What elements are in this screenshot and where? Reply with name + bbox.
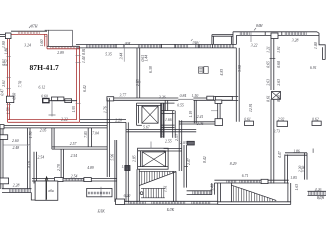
vent duct box: [43, 99, 49, 103]
window wall bottom-left: [2, 188, 32, 190]
corner inner line: [323, 47, 326, 59]
wall y122 right of corridor: [179, 122, 218, 124]
svg-text:6.20: 6.20: [124, 194, 131, 198]
svg-text:2.41: 2.41: [197, 115, 204, 119]
svg-text:4.18: 4.18: [28, 161, 32, 168]
pier x218 bottom: [215, 119, 223, 126]
dark vent box corridor: [125, 166, 130, 171]
ramp divider: [230, 183, 232, 202]
svg-text:5.96: 5.96: [111, 154, 115, 161]
wall joint tick: [270, 58, 276, 60]
svg-text:0.60: 0.60: [41, 95, 48, 99]
svg-text:1.66: 1.66: [165, 118, 172, 122]
wall elevator2 to corridor: [164, 149, 182, 152]
svg-text:1.21: 1.21: [266, 46, 270, 53]
svg-text:0.51: 0.51: [4, 59, 8, 66]
stair lower flight: [141, 187, 165, 189]
svg-text:6.12: 6.12: [39, 85, 46, 89]
bottom-left unit top wall: [1, 126, 108, 128]
svg-text:3.44: 3.44: [120, 53, 124, 60]
svg-text:БЛК: БЛК: [166, 208, 175, 212]
svg-text:7.70: 7.70: [19, 81, 23, 88]
pier x218 top: [215, 100, 222, 103]
svg-text:1.76: 1.76: [29, 131, 33, 138]
window hatch right section b: [240, 180, 259, 182]
svg-text:2.61: 2.61: [2, 80, 6, 87]
svg-text:2.55: 2.55: [165, 139, 172, 143]
tick x216 wall: [211, 110, 218, 112]
svg-text:3.26: 3.26: [159, 96, 166, 100]
pier right wing A: [277, 121, 288, 126]
window hatch 3a: [176, 45, 188, 48]
pier right section: [261, 179, 268, 183]
wall x195: [194, 100, 196, 123]
svg-text:0.65: 0.65: [266, 61, 270, 68]
svg-text:1.44: 1.44: [144, 55, 148, 62]
hall middle wall B x115: [115, 140, 117, 202]
bottom window a: [129, 202, 146, 205]
red unit top wall A outer: [11, 30, 47, 32]
svg-text:84Н: 84Н: [256, 24, 263, 28]
wall x185: [184, 145, 187, 188]
svg-text:4.47: 4.47: [278, 150, 282, 158]
svg-text:3.24: 3.24: [24, 43, 31, 47]
plumbing riser: [51, 101, 53, 117]
dim tick x124: [123, 46, 125, 61]
raised loggia box x212-233: [212, 34, 233, 36]
dim tick x251: [250, 32, 252, 42]
balcony box above red unit: [49, 30, 73, 46]
svg-text:2.05: 2.05: [40, 129, 47, 133]
pier 0.61: [245, 121, 254, 125]
ramp treads: [234, 186, 276, 201]
dim ticks on red walls: [7, 56, 11, 58]
svg-text:3.28: 3.28: [292, 38, 299, 42]
window hatch 4 loggia: [214, 45, 231, 48]
svg-text:6.71: 6.71: [242, 174, 249, 178]
svg-text:5.98: 5.98: [238, 65, 242, 72]
room divider x27: [28, 128, 30, 189]
window hatch top B: [51, 47, 75, 49]
axis label ЛВУ tick: [191, 39, 193, 41]
svg-text:1.55: 1.55: [161, 131, 165, 138]
axis label 87Н tick: [29, 26, 31, 28]
window hatch 3b: [196, 45, 211, 48]
step to vestibule: [31, 193, 35, 200]
upper wall window hatch: [285, 32, 306, 35]
kitchen icon top-right unit: [199, 67, 204, 73]
passage right wall: [212, 183, 215, 195]
svg-text:0.61: 0.61: [266, 95, 270, 102]
svg-text:ЛВУ: ЛВУ: [191, 41, 200, 45]
right wing top wall: [76, 43, 236, 45]
svg-text:3.22: 3.22: [251, 43, 258, 47]
svg-text:0.47: 0.47: [1, 88, 5, 96]
dark vent box: [187, 141, 194, 145]
wall right of elevator 1: [162, 103, 165, 138]
stair block right wall: [174, 171, 177, 202]
svg-text:1.50: 1.50: [192, 94, 199, 98]
svg-text:2.57: 2.57: [70, 142, 78, 146]
pier left wall B: [0, 178, 9, 184]
svg-text:1.40: 1.40: [211, 184, 215, 191]
svg-text:2.53: 2.53: [175, 134, 179, 141]
svg-text:8.29: 8.29: [230, 162, 237, 166]
svg-text:0.55: 0.55: [177, 104, 184, 108]
hatch wall y178: [65, 179, 83, 181]
corridor wall upper vertical: [137, 48, 140, 98]
pier tick: [115, 44, 117, 48]
tick through balcony: [100, 187, 102, 198]
vestibule divider: [45, 181, 47, 200]
bottom window c: [192, 202, 210, 205]
step-up wall x233: [232, 32, 234, 48]
upper wall hatch a: [240, 32, 249, 35]
elevator 1 cab: [142, 106, 158, 123]
svg-text:1.60: 1.60: [40, 40, 44, 47]
bottom wall center: [117, 200, 218, 202]
pier tick a: [264, 32, 266, 36]
svg-text:2.28: 2.28: [13, 184, 20, 188]
elevator 2 cab: [142, 152, 165, 167]
svg-text:1.61: 1.61: [164, 185, 168, 192]
svg-text:12.91: 12.91: [249, 103, 253, 112]
corridor bottom wall (red unit underside): [80, 119, 126, 121]
svg-text:1.19: 1.19: [189, 111, 193, 118]
svg-text:6.42: 6.42: [83, 85, 87, 92]
svg-text:1.76: 1.76: [104, 106, 108, 113]
balcony box БЛК bottom-left: [87, 188, 112, 196]
pier y178 A: [54, 178, 63, 182]
svg-text:2.47: 2.47: [187, 157, 191, 165]
wall stub far left: [0, 34, 5, 36]
window hatch right section a: [227, 180, 236, 182]
vestibule box: [35, 181, 58, 200]
svg-text:2.48: 2.48: [13, 146, 20, 150]
svg-text:4.83: 4.83: [220, 69, 224, 76]
pier 0.62: [312, 121, 321, 125]
svg-text:1.78: 1.78: [7, 107, 11, 114]
pier B: [216, 97, 233, 101]
hall wall vertical: [107, 98, 109, 177]
svg-text:7.04: 7.04: [92, 132, 99, 136]
long wall x271 lower part: [271, 99, 274, 183]
red unit top wall B outer: [47, 45, 80, 47]
svg-text:БЛК: БЛК: [97, 210, 106, 214]
svg-text:1.95: 1.95: [72, 106, 76, 113]
svg-text:ВДН: ВДН: [317, 196, 325, 200]
passage hatch to right section: [187, 190, 212, 192]
wall y147: [52, 147, 108, 149]
svg-text:0.73: 0.73: [273, 129, 280, 133]
stair upper flight top line: [139, 170, 176, 172]
wall x62: [61, 149, 64, 178]
window hatch 1: [86, 45, 115, 48]
svg-text:6.91: 6.91: [310, 66, 317, 70]
svg-text:0.84: 0.84: [180, 94, 187, 98]
svg-text:2.54: 2.54: [38, 156, 45, 160]
svg-text:5.67: 5.67: [143, 125, 151, 129]
tick above elevator 2: [150, 142, 152, 149]
pier wall x207-238: [207, 97, 238, 101]
svg-text:4.26: 4.26: [315, 188, 322, 192]
window hatch top A: [18, 31, 39, 34]
stair upper flight diagonal: [139, 172, 176, 186]
svg-text:87Н-41.7: 87Н-41.7: [30, 63, 60, 72]
svg-text:3.77: 3.77: [120, 93, 128, 97]
vestibule arrow: [46, 177, 48, 200]
red unit right wall: [76, 49, 78, 120]
far right passage: [308, 190, 326, 192]
svg-text:1.90: 1.90: [2, 41, 6, 48]
wall below elevator 1: [126, 130, 196, 132]
svg-text:2.20: 2.20: [115, 118, 122, 122]
red apartment outline 87Н-41.7: [7, 34, 9, 122]
svg-text:6.38: 6.38: [149, 66, 153, 73]
svg-text:8.42: 8.42: [203, 156, 207, 163]
bottom right walls cluster: [285, 153, 307, 155]
svg-text:1.63: 1.63: [295, 184, 299, 191]
right section top wall y180: [214, 179, 288, 181]
svg-text:0.60: 0.60: [277, 95, 281, 102]
room divider x52: [52, 128, 54, 149]
kitchen counter red unit: [49, 100, 77, 102]
pier hall wall: [107, 97, 114, 101]
svg-text:8М: 8М: [125, 42, 131, 46]
window hatch 2: [138, 45, 161, 48]
window hatch bottom-left: [9, 189, 30, 193]
ramp diagonal: [232, 185, 277, 200]
pier top-left corner lower unit: [0, 125, 4, 129]
svg-text:2.63: 2.63: [277, 79, 281, 86]
red unit step wall: [44, 34, 46, 46]
pier y178 B: [84, 178, 91, 182]
svg-text:5.35: 5.35: [105, 52, 112, 56]
pier on wall x271: [271, 33, 278, 39]
svg-text:1.80: 1.80: [4, 48, 8, 55]
svg-text:1.73: 1.73: [122, 165, 129, 169]
pier left wall A: [0, 135, 8, 140]
svg-text:2.78: 2.78: [57, 164, 61, 171]
svg-text:7.05: 7.05: [84, 131, 88, 138]
room divider x89: [88, 128, 91, 147]
svg-text:1.85: 1.85: [290, 176, 297, 180]
svg-text:1.00: 1.00: [314, 42, 318, 49]
bottom window b: [152, 202, 185, 205]
wall y178: [32, 177, 117, 179]
svg-text:0.60: 0.60: [12, 93, 16, 100]
pier on red unit left wall: [6, 96, 13, 102]
svg-text:2.54: 2.54: [71, 175, 78, 179]
svg-text:2.95: 2.95: [136, 79, 140, 86]
long interior wall x271 upper part: [271, 35, 274, 90]
svg-text:0.60: 0.60: [277, 61, 281, 68]
corridor right wall: [179, 120, 182, 171]
axis label 84Н tick: [254, 28, 256, 30]
pier bottom wall: [116, 199, 125, 205]
stair column circle: [140, 192, 143, 195]
svg-text:2.63: 2.63: [266, 79, 270, 86]
svg-text:0.81: 0.81: [82, 48, 86, 55]
pier top-left of red unit: [5, 33, 11, 39]
stair upper treads: [142, 171, 173, 184]
svg-text:1.86: 1.86: [293, 149, 300, 153]
vent box with X on wall x271: [272, 92, 281, 100]
elevator shaft 1: [137, 102, 175, 104]
svg-text:2.60: 2.60: [12, 139, 19, 143]
svg-text:2.89: 2.89: [57, 51, 64, 55]
door threshold: [178, 98, 193, 100]
svg-text:1.91: 1.91: [277, 46, 281, 53]
svg-text:2.22: 2.22: [61, 118, 68, 122]
svg-text:2.36: 2.36: [197, 122, 204, 126]
elevator shaft 2: [138, 148, 169, 169]
red unit bottom wall: [8, 119, 77, 121]
svg-text:2.03: 2.03: [180, 141, 187, 145]
stairs ramp bottom right: [217, 183, 219, 205]
bath stub wall x166: [165, 100, 168, 110]
svg-text:2.85: 2.85: [132, 155, 136, 162]
svg-text:2.54: 2.54: [71, 154, 78, 158]
svg-text:вбн: вбн: [48, 189, 54, 193]
pier A: [207, 96, 214, 100]
axis label 8М tick: [123, 44, 125, 47]
wall x218 piers: [218, 100, 220, 125]
svg-text:4.89: 4.89: [87, 166, 94, 170]
joint tick: [136, 81, 141, 83]
svg-text:87Н: 87Н: [31, 25, 38, 29]
building top-right corner: [317, 32, 325, 60]
svg-text:1.44: 1.44: [82, 56, 86, 63]
stair block left wall: [137, 169, 139, 202]
pier tick b: [281, 32, 283, 36]
corridor right wall x126: [126, 122, 128, 202]
upper wall top-right unit: [233, 31, 317, 33]
hall wall horizontal: [107, 98, 178, 100]
bath block left walls: [161, 111, 175, 114]
room divider x34: [34, 152, 37, 184]
wall turning down x237: [236, 48, 239, 122]
svg-text:2.36: 2.36: [302, 166, 306, 173]
bottom-left unit left wall: [1, 126, 3, 189]
